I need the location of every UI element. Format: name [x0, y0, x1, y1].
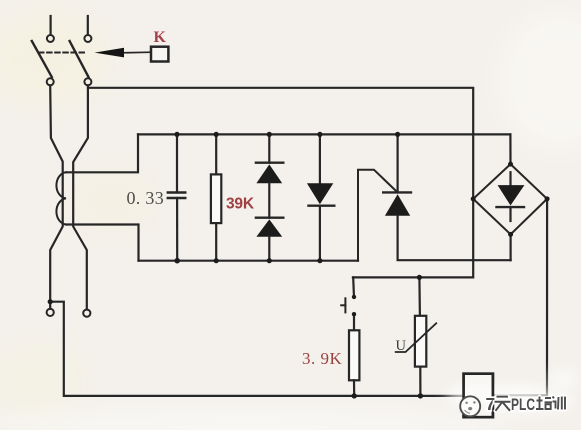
capacitor C1 branch top wire: [176, 134, 178, 192]
pushbutton SB contact dot lower: [352, 312, 356, 316]
svg-text:PLC: PLC: [511, 396, 535, 414]
junction dot: bridge left vertex: [471, 196, 476, 201]
switch S top terminal 2: [84, 35, 91, 42]
wire: bridge right output down to load: [493, 199, 547, 395]
pushbutton SB actuator: [341, 298, 345, 312]
watermark glow: [446, 370, 578, 411]
thyristor V triangle: [385, 194, 410, 216]
watermark logo circle: [460, 396, 480, 416]
glyphs pei and xun: [536, 397, 565, 410]
capacitor C1 plates: [168, 193, 186, 199]
junction dot: R1 bottom: [214, 258, 219, 263]
diode D3 cathode bar: [309, 204, 335, 206]
pushbutton SB wire from AC node: [352, 277, 355, 295]
wire: CT bottom tap: [66, 225, 139, 261]
wire: left pole down to left CT leg: [50, 86, 63, 309]
arrow shaft to K: [122, 51, 151, 54]
junction dot: D1 top: [267, 132, 272, 137]
arrowhead pointing at switch: [95, 48, 125, 58]
bridge inner diode cathode bar: [497, 206, 525, 208]
pushbutton SB contact dot upper: [352, 295, 356, 299]
wire: inner top rail: [138, 133, 510, 135]
switch S top terminal 1: [47, 35, 54, 42]
svg-text:3. 9K: 3. 9K: [302, 349, 343, 368]
diode D3 branch top wire: [319, 134, 321, 183]
diode D3 bottom wire: [319, 206, 321, 261]
mechanical link (dashed): [39, 52, 87, 54]
junction dot: cap top: [174, 132, 179, 137]
bridge inner diode cathode lead: [509, 207, 511, 221]
varistor RV bottom wire: [419, 367, 421, 396]
resistor R2 bottom wire: [353, 380, 355, 396]
wire between D1 and D2: [268, 183, 270, 218]
diode D1 triangle: [256, 164, 282, 183]
terminal circle left output: [47, 309, 54, 316]
switch S lead 1: [49, 16, 51, 35]
switch S blade 1: [32, 41, 52, 77]
bridge inner diode triangle: [498, 185, 525, 205]
switch S blade 2: [70, 41, 89, 77]
glyph tian: [495, 397, 511, 411]
junction dot: bridge bottom vertex: [508, 232, 513, 237]
junction dot: bridge top vertex: [508, 162, 513, 167]
K actuator box: [151, 47, 168, 62]
load box re-stroke: [464, 374, 493, 418]
varistor RV diagonal stroke: [396, 323, 437, 352]
junction dot: bridge right vertex: [545, 196, 550, 201]
thyristor V top wire: [397, 134, 399, 192]
wire: CT top tap: [66, 134, 138, 172]
resistor R1 39K bottom wire: [215, 223, 217, 261]
junction dot: varistor bottom: [418, 393, 423, 398]
junction dot: D3 bottom: [317, 258, 322, 263]
wire: inner bottom rail: [139, 260, 359, 262]
svg-text:39K: 39K: [226, 196, 255, 213]
thyristor V bottom wire to bridge bottom: [398, 216, 511, 260]
junction dot: cap bottom: [174, 258, 180, 264]
thyristor V gate wire: [358, 170, 398, 261]
switch S bottom terminal 2: [84, 78, 91, 85]
capacitor C1 branch bottom wire: [176, 198, 178, 261]
wire: outer bottom rail from left tap: [50, 302, 463, 396]
diode D1 branch top wire: [268, 134, 270, 162]
svg-text:0. 33: 0. 33: [127, 188, 165, 208]
junction dot: D2 bottom: [267, 258, 272, 263]
load box: [464, 374, 493, 418]
junction dot: CT left tap: [48, 299, 53, 304]
diode D2 triangle: [256, 219, 282, 236]
diode D2 bottom wire: [268, 237, 270, 261]
junction dot: SCR top: [395, 132, 400, 137]
diode D1 cathode bar: [256, 161, 283, 163]
resistor R1 39K top wire: [215, 134, 217, 174]
varistor RV wire from AC node: [418, 277, 421, 316]
current transformer T secondary arcs: [56, 172, 66, 224]
bridge rectifier top lead: [509, 134, 511, 164]
resistor R1 39K body: [211, 174, 221, 223]
thyristor V cathode bar: [383, 191, 411, 193]
resistor R2 3.9K body: [349, 330, 359, 380]
junction dot: R2 bottom: [352, 393, 357, 398]
wire: top feed line from switch: [88, 88, 473, 278]
terminal circle right output: [83, 310, 90, 317]
watermark text 7天PLC培训: [486, 394, 566, 414]
bridge inner diode anode lead: [509, 172, 511, 185]
switch S lead 2: [87, 16, 89, 35]
junction dot: D3 top: [317, 132, 322, 137]
switch S bottom terminal 1: [47, 78, 54, 85]
bridge rectifier diamond: [473, 164, 547, 234]
varistor RV body: [415, 316, 426, 367]
svg-text:K: K: [154, 29, 167, 46]
svg-text:U: U: [396, 338, 407, 354]
wire: right pole down to right CT leg: [73, 86, 88, 310]
junction dot: R1 top: [214, 132, 219, 137]
diode D3 triangle: [307, 183, 333, 204]
bridge bottom lead: [510, 234, 512, 260]
junction dot: varistor top: [417, 275, 422, 280]
pushbutton SB lower wire: [353, 316, 355, 331]
diode D2 cathode bar: [256, 216, 283, 218]
